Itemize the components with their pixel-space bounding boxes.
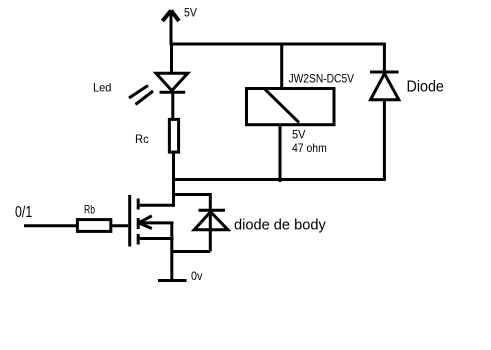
svg-text:0v: 0v: [191, 269, 202, 283]
transistor Q1 N-MOSFET: [130, 195, 175, 247]
wire relay coil top: [280, 44, 283, 89]
svg-text:Led: Led: [93, 81, 111, 95]
resistor Rc: [169, 119, 178, 152]
wire body diode bottom link: [172, 250, 211, 253]
svg-text:Diode: Diode: [407, 79, 444, 96]
wire source to ground: [170, 222, 173, 282]
ground 0v: [158, 279, 187, 282]
svg-text:47 ohm: 47 ohm: [292, 141, 327, 155]
diode D2 flyback: [370, 72, 399, 100]
wire LED cathode to Rc: [171, 92, 174, 118]
wire 5V to LED anode: [170, 44, 173, 72]
wire diode branch bottom: [383, 100, 386, 180]
relay K1 JW2SN-DC5V: [247, 89, 335, 125]
wire body diode top link: [174, 195, 211, 252]
wire relay coil bottom: [279, 125, 282, 182]
svg-text:5V: 5V: [184, 6, 197, 20]
wire top rail: [171, 43, 386, 46]
svg-text:diode de body: diode de body: [234, 217, 326, 234]
wire drain rail to relay and diode branch: [172, 178, 386, 181]
wire Rb to gate: [112, 224, 129, 227]
wire input to Rb: [24, 224, 77, 227]
wire diode branch top: [383, 44, 386, 72]
power supply 5V arrow: [163, 10, 180, 45]
wire Rc to MOSFET drain: [172, 152, 175, 207]
svg-text:0/1: 0/1: [15, 204, 32, 221]
LED D1: [129, 73, 188, 104]
svg-text:Rc: Rc: [135, 132, 149, 146]
svg-text:Rb: Rb: [84, 203, 95, 217]
resistor Rb: [77, 220, 110, 232]
svg-text:JW2SN-DC5V: JW2SN-DC5V: [289, 72, 355, 86]
svg-text:5V: 5V: [292, 128, 305, 142]
diode body (diode de body): [194, 210, 228, 230]
